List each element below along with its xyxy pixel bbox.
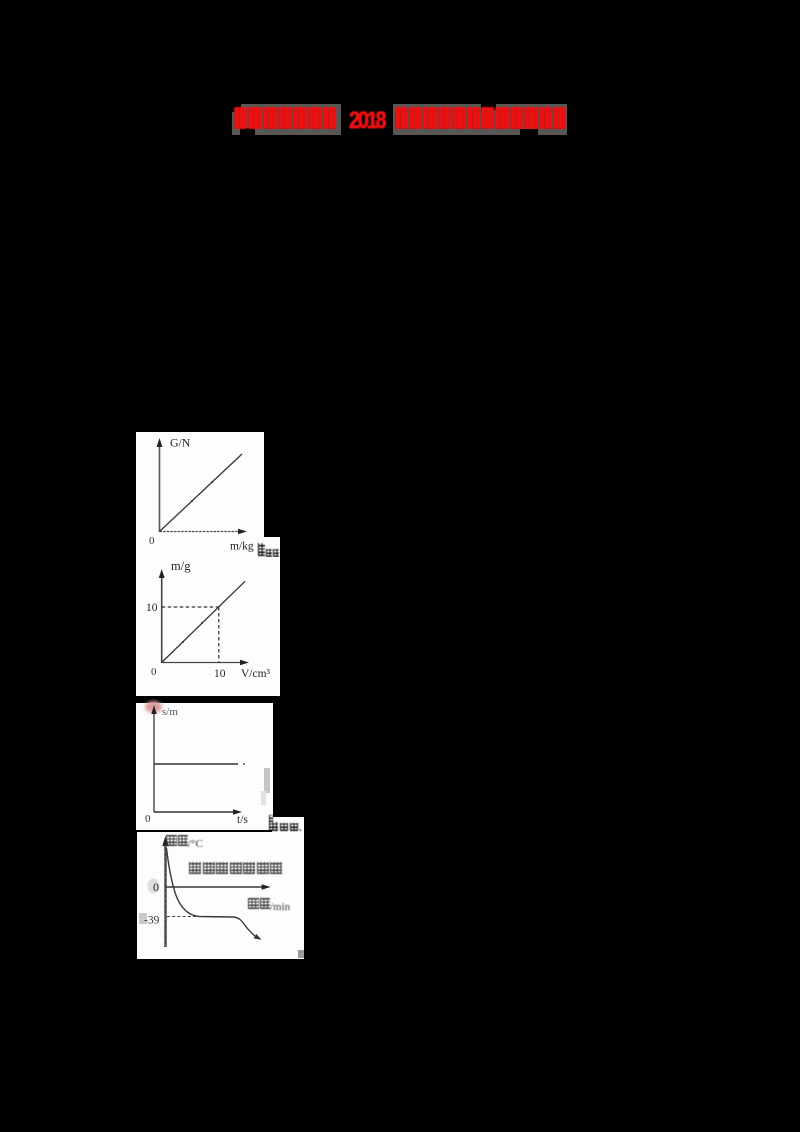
- x-axis at zero: [166, 886, 266, 888]
- line m=dV: [162, 581, 245, 662]
- white patch right of box1: [264, 537, 280, 557]
- y-axis: [159, 444, 161, 532]
- text: freezing graph of mercury: [189, 862, 282, 880]
- svg-text:10: 10: [214, 668, 226, 680]
- label wendu/C: [166, 835, 203, 853]
- svg-text:V/cm³: V/cm³: [241, 668, 271, 680]
- dashed guide horizontal: [162, 606, 219, 608]
- x-axis: [160, 531, 243, 533]
- graph box 2 : m/g vs V/cm3: [136, 557, 280, 696]
- title grey band left: [232, 104, 341, 135]
- -39 smudge: [139, 913, 147, 924]
- svg-text:0: 0: [151, 666, 157, 678]
- svg-text:t/s: t/s: [237, 814, 248, 826]
- y-axis: [153, 711, 155, 812]
- svg-text:m/g: m/g: [171, 559, 191, 573]
- label shijian/min: [248, 898, 290, 916]
- svg-text:m/kg: m/kg: [230, 541, 254, 553]
- svg-text:-39: -39: [144, 915, 160, 927]
- grey smudge right edge: [264, 768, 270, 793]
- graph box 3 : s/m vs t/s: [136, 703, 273, 830]
- dashed -39 guide: [167, 916, 201, 918]
- cooling curve: [167, 848, 256, 936]
- line G=mg: [160, 454, 243, 532]
- y-axis thick: [164, 842, 167, 947]
- x-axis: [162, 662, 244, 664]
- dashed guide vertical: [218, 607, 220, 663]
- y-axis: [161, 575, 163, 663]
- pink smudge: [145, 701, 162, 713]
- svg-text:G/N: G/N: [170, 436, 191, 450]
- graph box 1 : G/N vs m/kg: [136, 432, 264, 557]
- x-axis: [154, 811, 237, 813]
- svg-text:0: 0: [153, 880, 159, 894]
- svg-text:s/m: s/m: [162, 706, 178, 718]
- dark scribble row: [268, 815, 306, 832]
- title red text blobs: [232, 104, 572, 135]
- dark scribble next to m/kg: [257, 542, 283, 559]
- data: constant distance line: [154, 763, 238, 765]
- svg-text:0: 0: [149, 535, 155, 547]
- graph box 4 : cooling curve of mercury: [137, 832, 304, 959]
- zero smudge: [148, 879, 160, 894]
- svg-text:10: 10: [146, 602, 158, 614]
- year 2018: [349, 109, 384, 133]
- title grey band right: [393, 104, 567, 135]
- bottom right grey blob: [298, 950, 304, 958]
- svg-text:0: 0: [145, 813, 151, 825]
- title band jpeg notches: [232, 104, 241, 112]
- white patch above box4 right: [272, 817, 304, 833]
